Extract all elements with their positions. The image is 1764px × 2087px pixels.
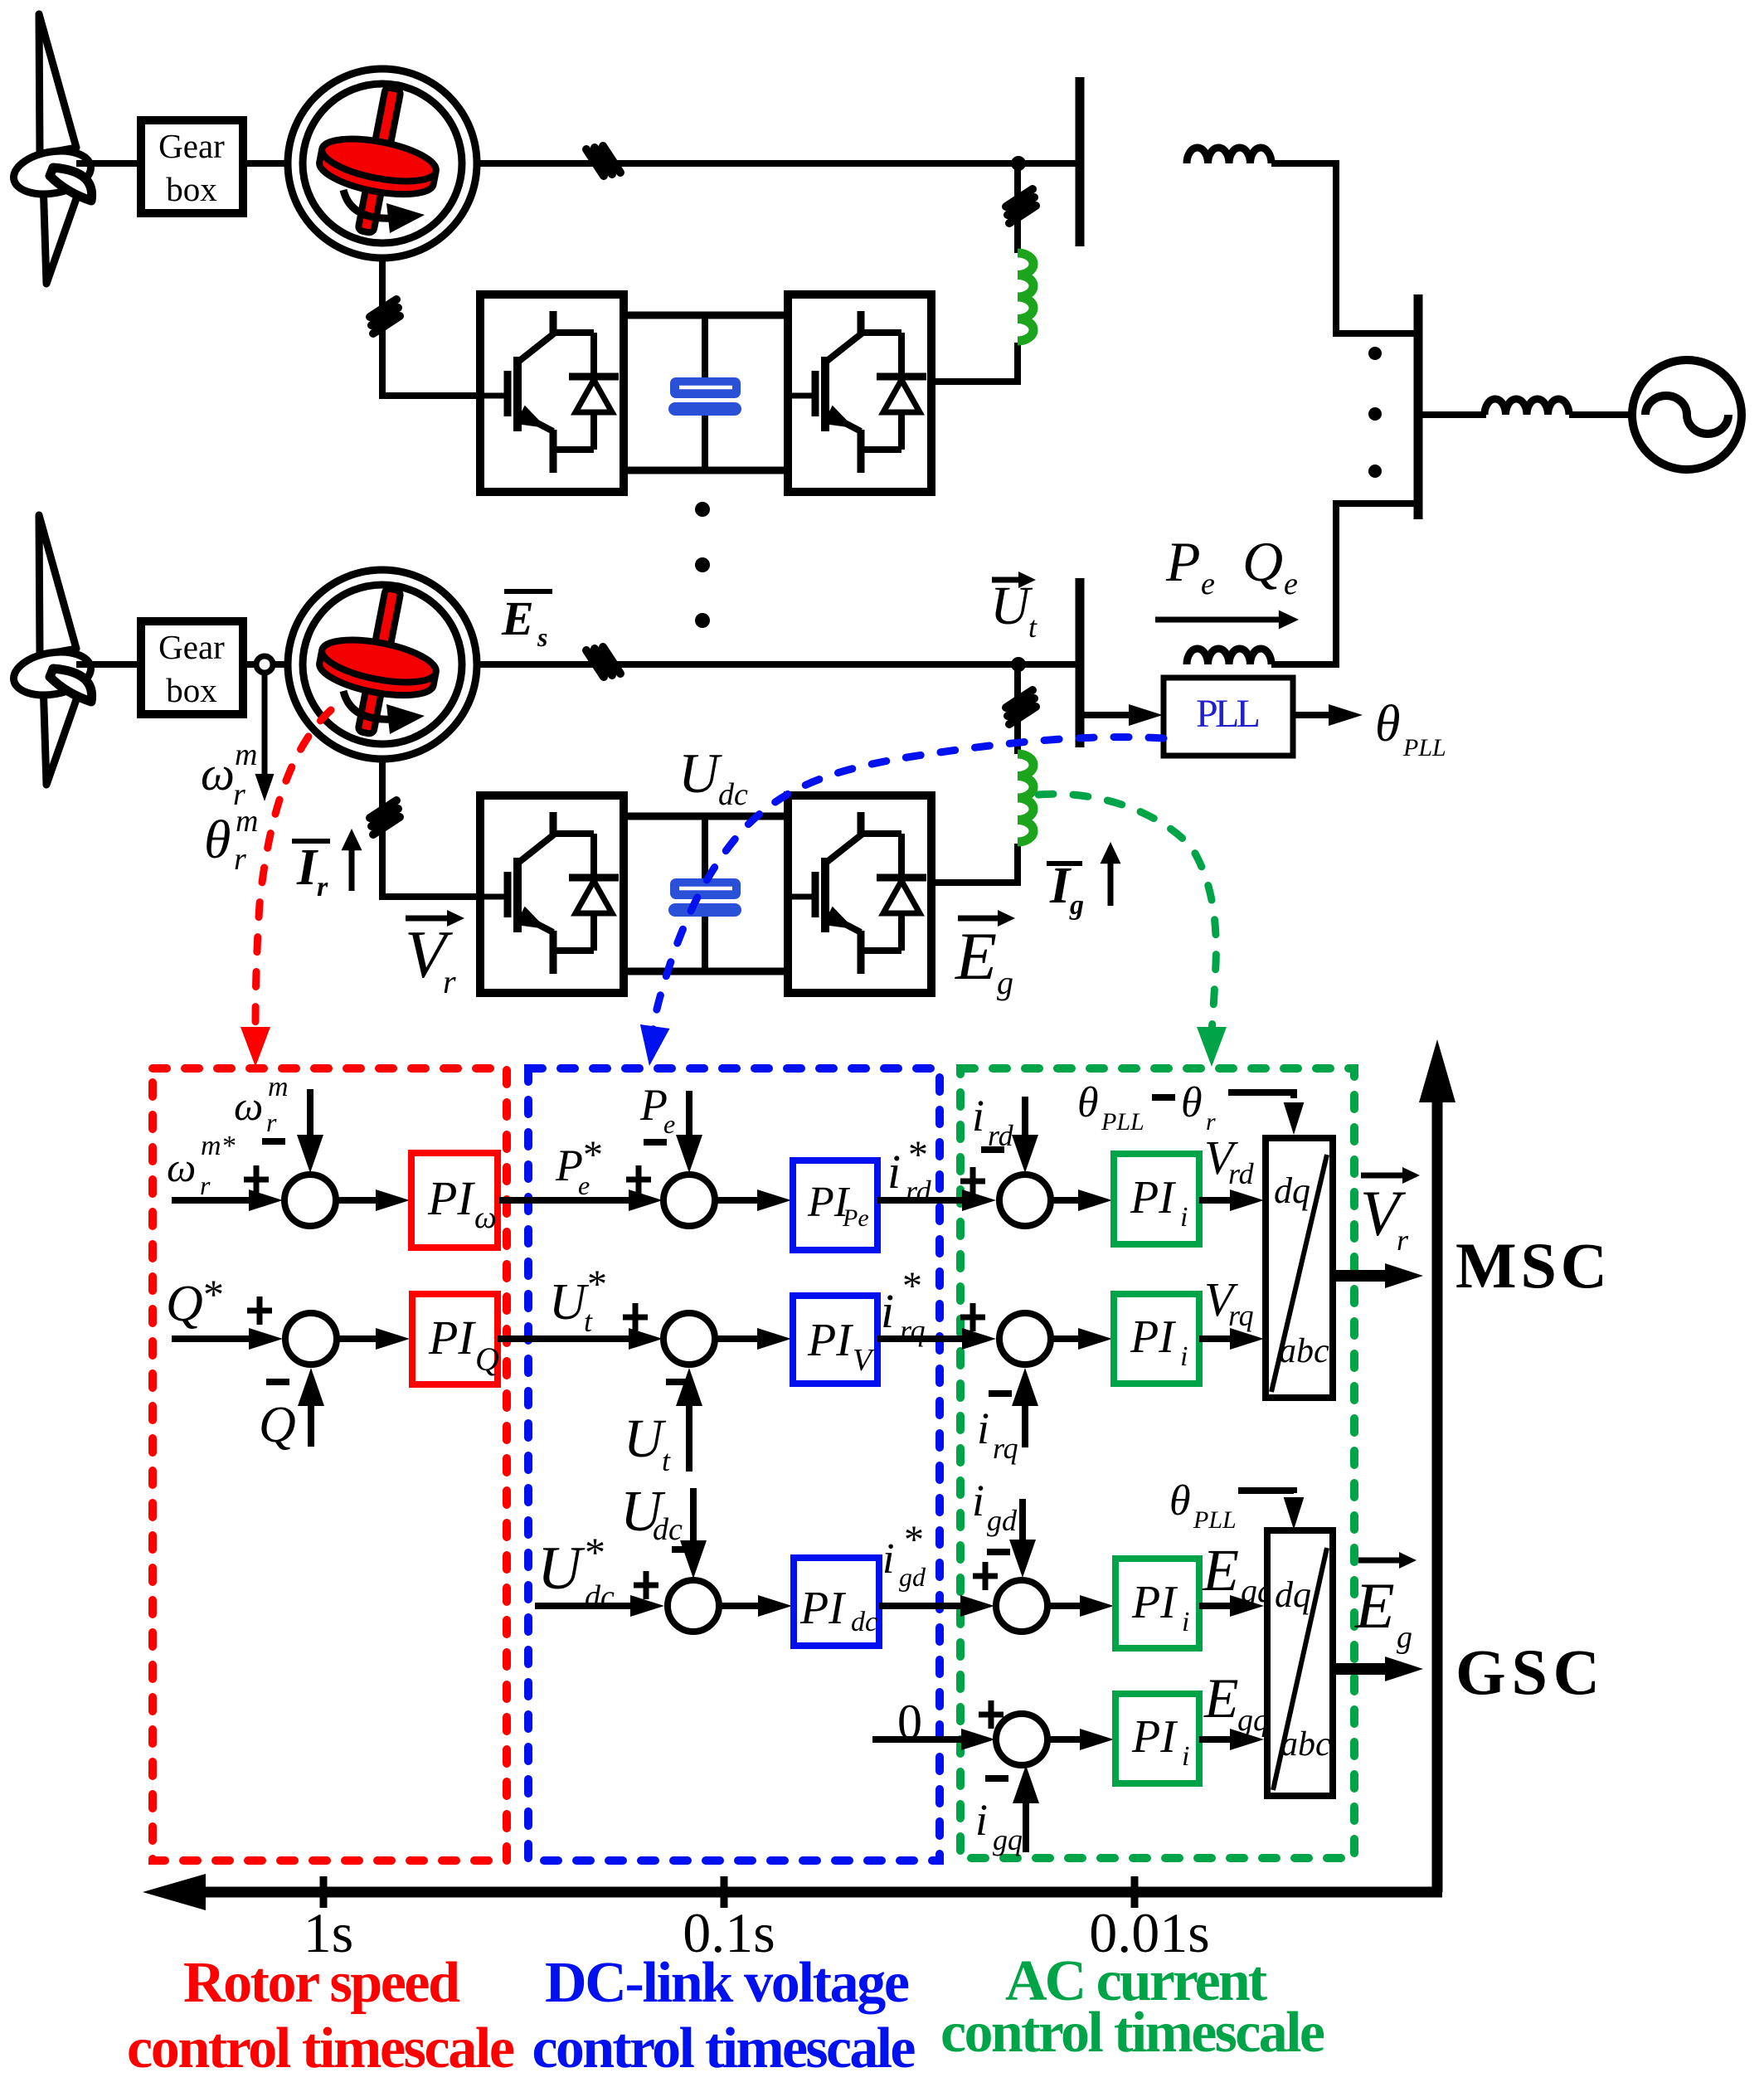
- svg-text:Pe: Pe: [842, 1204, 869, 1232]
- svg-text:e: e: [663, 1109, 675, 1139]
- red dashed curve (rotor speed): [255, 710, 331, 1025]
- svg-text:t: t: [1028, 611, 1038, 644]
- svg-text:i: i: [977, 1403, 989, 1453]
- wire PI_Pe out: [877, 1197, 966, 1204]
- PLL input arrow: [1082, 712, 1131, 718]
- arrow to PI_i row1: [1051, 1197, 1082, 1204]
- svg-text:U: U: [990, 576, 1033, 636]
- svg-text:*: *: [587, 1262, 607, 1306]
- blue dashed curve (dc-link voltage): [653, 737, 1164, 1034]
- svg-text:rq: rq: [900, 1314, 926, 1347]
- svg-text:U: U: [678, 742, 722, 805]
- grid inductor: [1485, 399, 1569, 415]
- PI_dc block: [794, 1558, 879, 1646]
- svg-text:i: i: [1180, 1202, 1188, 1233]
- svg-text:E: E: [1203, 1666, 1239, 1729]
- svg-text:rq: rq: [1228, 1299, 1254, 1332]
- svg-text:*: *: [908, 1133, 928, 1177]
- arrow to PI_i row3: [1047, 1603, 1084, 1609]
- tick 0.1s: [721, 1876, 728, 1908]
- svg-text:PI: PI: [427, 1171, 475, 1225]
- svg-text:m*: m*: [201, 1131, 236, 1161]
- arrow PI_i to dq row2: [1199, 1335, 1234, 1342]
- plus sign: [960, 1167, 985, 1195]
- svg-text:s: s: [537, 622, 547, 652]
- tick 0.01s: [1131, 1876, 1139, 1908]
- feedback down arrow i_rd: [1022, 1097, 1028, 1138]
- label Vr vector output: [1361, 1173, 1408, 1179]
- summing junction U_dc: [668, 1580, 719, 1632]
- svg-text:rq: rq: [993, 1432, 1018, 1465]
- plus sign: [626, 1165, 651, 1194]
- arrow to PI_i row2: [1051, 1335, 1082, 1342]
- svg-text:abc: abc: [1280, 1725, 1331, 1763]
- label Es: [504, 589, 552, 594]
- plus sign: [973, 1562, 998, 1590]
- svg-text:r: r: [266, 1107, 277, 1137]
- minus sign: [985, 1775, 1008, 1782]
- PI_i block row2: [1114, 1294, 1199, 1384]
- svg-text:θ: θ: [1077, 1079, 1099, 1126]
- svg-text:θ: θ: [204, 810, 231, 870]
- arrow PI_i to dq row4: [1199, 1736, 1234, 1743]
- svg-text:I: I: [296, 839, 318, 896]
- timescale vertical axis: [1432, 1102, 1443, 1892]
- svg-text:control timescale: control timescale: [940, 2001, 1325, 2065]
- svg-text:i: i: [1182, 1741, 1189, 1772]
- svg-text:*: *: [904, 1518, 924, 1562]
- green dashed curve (ac current): [1038, 794, 1216, 1034]
- svg-text:i: i: [972, 1091, 984, 1141]
- PLL output arrow: [1293, 712, 1330, 718]
- arrow to PI_V: [715, 1335, 761, 1342]
- svg-text:r: r: [200, 1170, 211, 1200]
- minus sign: [644, 1139, 667, 1146]
- Eg output thick arrow: [1333, 1663, 1388, 1675]
- arrow to PI_i row4: [1047, 1736, 1084, 1743]
- svg-text:E: E: [1354, 1569, 1395, 1642]
- ellipsis dots (more units): [695, 502, 710, 517]
- feedback up arrow i_rq: [1022, 1403, 1028, 1447]
- wire busbar to grid: [1422, 411, 1486, 418]
- svg-text:ω: ω: [474, 1200, 497, 1235]
- arrow to PI_Q: [337, 1335, 380, 1342]
- label Vr (vector): [406, 916, 454, 922]
- summing junction Ut: [663, 1313, 715, 1365]
- input wire U*_dc: [535, 1603, 634, 1609]
- minus sign: [672, 1546, 695, 1553]
- angle wire into dq1: [1228, 1092, 1294, 1098]
- svg-text:control timescale: control timescale: [127, 2016, 515, 2080]
- wind turbine unit 2: [10, 515, 1339, 993]
- svg-text:PI: PI: [1130, 1311, 1176, 1363]
- svg-text:I: I: [1049, 858, 1072, 914]
- svg-text:PI: PI: [1131, 1711, 1178, 1763]
- svg-text:t: t: [662, 1444, 671, 1477]
- svg-text:gd: gd: [987, 1504, 1018, 1537]
- svg-text:Q: Q: [166, 1276, 203, 1332]
- svg-text:PI: PI: [1131, 1577, 1178, 1628]
- svg-text:PI: PI: [1130, 1172, 1176, 1223]
- svg-text:control timescale: control timescale: [532, 2016, 916, 2080]
- minus sign: [989, 1390, 1012, 1397]
- plus sign: [979, 1700, 1003, 1729]
- svg-text:g: g: [1069, 890, 1084, 921]
- svg-text:PLL: PLL: [1101, 1108, 1144, 1136]
- wire unit2 to busbar: [1336, 504, 1414, 664]
- svg-text:rd: rd: [906, 1175, 932, 1208]
- svg-text:PI: PI: [807, 1315, 853, 1366]
- svg-text:gq: gq: [993, 1823, 1023, 1856]
- timescale horizontal axis: [199, 1887, 1442, 1898]
- input wire 0: [872, 1736, 965, 1743]
- svg-text:E: E: [501, 591, 534, 645]
- summing junction speed: [284, 1175, 336, 1226]
- svg-text:g: g: [997, 964, 1013, 1001]
- svg-text:r: r: [1397, 1223, 1409, 1257]
- PI_omega block: [411, 1153, 498, 1248]
- svg-text:i: i: [975, 1795, 988, 1845]
- svg-text:PI: PI: [428, 1311, 476, 1365]
- svg-text:r: r: [234, 842, 246, 877]
- grid source: [1632, 360, 1742, 469]
- svg-text:r: r: [317, 872, 328, 902]
- summing junction Pe: [663, 1175, 715, 1226]
- wire PI_V out: [877, 1335, 966, 1342]
- feedback down arrow Pe: [686, 1091, 692, 1138]
- collecting busbar: [1414, 294, 1423, 519]
- arrow PI_i to dq row3: [1199, 1603, 1234, 1609]
- plus sign: [247, 1296, 272, 1325]
- PI_i block row4: [1115, 1694, 1199, 1783]
- dq/abc transform MSC: [1266, 1138, 1333, 1398]
- input arrow speed ref: [172, 1197, 253, 1204]
- wire unit1 to busbar: [1336, 163, 1414, 333]
- svg-text:*: *: [902, 1264, 922, 1308]
- svg-text:m: m: [235, 737, 257, 772]
- PI_Pe block: [793, 1160, 877, 1250]
- svg-text:r: r: [1206, 1108, 1216, 1136]
- svg-text:e: e: [1201, 567, 1215, 601]
- summing junction i_gd: [996, 1580, 1047, 1632]
- minus sign: [266, 1379, 289, 1385]
- feedback up arrow Q: [308, 1403, 314, 1447]
- summing junction i_gq: [996, 1714, 1047, 1765]
- svg-text:PI: PI: [799, 1583, 846, 1634]
- ellipsis dots at busbar: [1368, 347, 1382, 360]
- svg-text:g: g: [1397, 1620, 1412, 1655]
- summing junction i_rq: [999, 1313, 1051, 1365]
- label Ir with up arrow: [292, 839, 330, 844]
- svg-text:U: U: [537, 1535, 586, 1603]
- minus sign: [987, 1549, 1010, 1555]
- svg-text:θ: θ: [1181, 1079, 1203, 1126]
- dq/abc transform GSC: [1267, 1530, 1333, 1796]
- svg-text:MSC: MSC: [1455, 1229, 1607, 1301]
- feedback down arrow: [307, 1089, 313, 1138]
- feedback down arrow i_gd: [1019, 1499, 1026, 1543]
- arrow to PI_w: [336, 1197, 380, 1204]
- summing junction Q: [285, 1313, 337, 1365]
- PI_i block row3: [1115, 1559, 1199, 1648]
- svg-text:abc: abc: [1279, 1332, 1329, 1370]
- feedback down arrow U_dc: [690, 1488, 697, 1544]
- svg-text:dc: dc: [851, 1607, 877, 1637]
- angle wire into dq2: [1238, 1491, 1294, 1493]
- svg-text:dc: dc: [718, 777, 748, 812]
- speed/position sensor: [256, 656, 273, 673]
- svg-text:i: i: [1180, 1341, 1188, 1372]
- svg-text:Rotor speed: Rotor speed: [183, 1951, 460, 2015]
- svg-text:Q: Q: [259, 1397, 296, 1453]
- plus sign: [623, 1303, 648, 1331]
- feedback up arrow i_gq: [1023, 1800, 1029, 1852]
- Vr output thick arrow: [1333, 1270, 1388, 1282]
- svg-text:E: E: [1202, 1537, 1239, 1603]
- wind turbine unit 1: [10, 14, 1339, 492]
- svg-text:ω: ω: [201, 747, 235, 800]
- svg-text:i: i: [887, 1145, 901, 1199]
- summing junction i_rd: [999, 1175, 1051, 1226]
- svg-text:e: e: [578, 1170, 590, 1200]
- svg-text:dc: dc: [653, 1512, 683, 1547]
- plus sign: [634, 1571, 658, 1599]
- svg-text:PLL: PLL: [1193, 1506, 1237, 1534]
- svg-text:ω: ω: [167, 1144, 196, 1190]
- blue dashed box: dc-link voltage timescale: [528, 1068, 940, 1861]
- svg-text:P: P: [1165, 530, 1201, 593]
- green dashed box: ac current timescale: [960, 1068, 1354, 1858]
- svg-text:dq: dq: [1275, 1574, 1311, 1615]
- minus sign: [981, 1146, 1004, 1153]
- arrow PI_i to dq row1: [1199, 1197, 1234, 1204]
- plus sign: [960, 1303, 985, 1331]
- svg-text:PLL: PLL: [1402, 734, 1446, 761]
- svg-text:*: *: [585, 1529, 605, 1575]
- red dashed box: rotor speed timescale: [153, 1068, 507, 1861]
- svg-text:e: e: [1284, 567, 1298, 601]
- arrow to PI_Pe: [715, 1197, 761, 1204]
- svg-text:i: i: [881, 1284, 894, 1338]
- svg-text:U: U: [624, 1408, 667, 1469]
- svg-text:*: *: [203, 1271, 224, 1317]
- feedback up arrow Ut: [686, 1403, 692, 1472]
- svg-text:θ: θ: [1169, 1477, 1191, 1525]
- svg-text:i: i: [972, 1476, 984, 1525]
- minus sign: [666, 1379, 689, 1385]
- svg-text:Q: Q: [475, 1340, 499, 1378]
- svg-text:PLL: PLL: [1196, 692, 1261, 736]
- svg-text:DC-link voltage: DC-link voltage: [545, 1951, 910, 2015]
- svg-text:i: i: [1182, 1607, 1189, 1637]
- svg-text:θ: θ: [1375, 696, 1400, 752]
- tick 1s: [320, 1876, 328, 1908]
- svg-text:V: V: [853, 1343, 875, 1378]
- PI_Q block: [412, 1294, 498, 1384]
- svg-text:r: r: [443, 963, 456, 1000]
- minus sign: [262, 1138, 285, 1145]
- label Ig with up arrow: [1047, 861, 1082, 866]
- svg-text:gd: gd: [899, 1562, 926, 1592]
- svg-text:m: m: [268, 1072, 289, 1102]
- svg-text:dq: dq: [1274, 1170, 1310, 1211]
- label Ut (vector): [992, 577, 1027, 583]
- svg-text:rd: rd: [1228, 1157, 1255, 1190]
- svg-text:rd: rd: [988, 1119, 1014, 1152]
- label Eg vector output: [1358, 1558, 1405, 1564]
- wire PI_w to Pe summing: [499, 1197, 633, 1204]
- svg-text:GSC: GSC: [1455, 1636, 1600, 1708]
- svg-text:t: t: [584, 1305, 593, 1338]
- svg-text:m: m: [236, 804, 258, 839]
- svg-text:Q: Q: [1242, 530, 1283, 593]
- wire PI_Q to Ut summing: [498, 1335, 633, 1342]
- PI_V block: [793, 1296, 877, 1384]
- plus sign: [244, 1165, 269, 1194]
- svg-text:E: E: [955, 918, 997, 994]
- PI_i block row1: [1114, 1154, 1199, 1244]
- svg-text:i: i: [882, 1535, 894, 1583]
- PLL block: [1164, 678, 1293, 756]
- arrow to PI_dc: [719, 1603, 762, 1609]
- svg-text:ω: ω: [234, 1082, 263, 1129]
- wire PI_dc out: [879, 1603, 965, 1609]
- label Eg (vector): [958, 916, 1005, 922]
- input arrow Q ref: [172, 1335, 253, 1342]
